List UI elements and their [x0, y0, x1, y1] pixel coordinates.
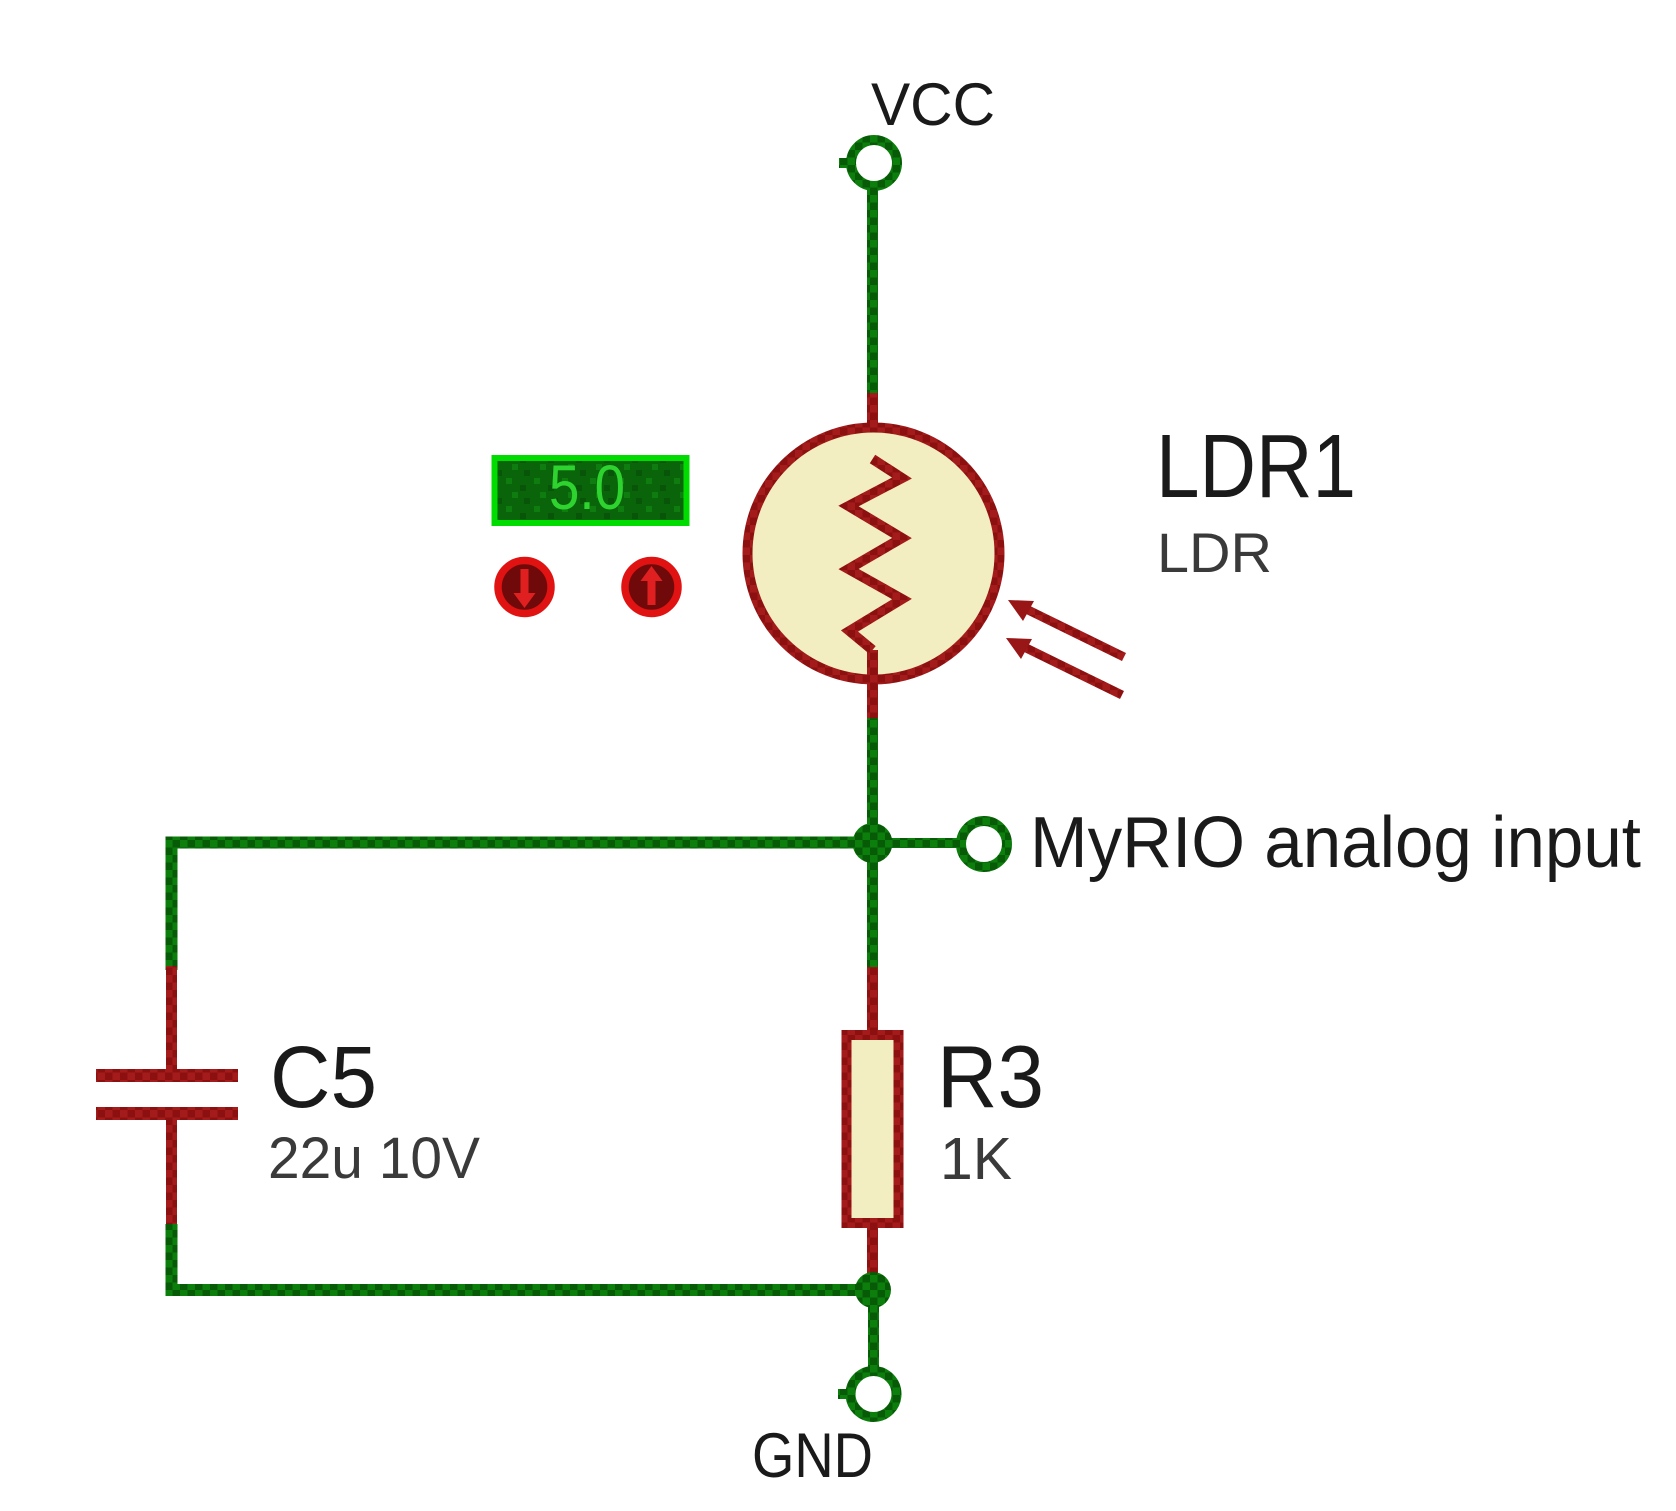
resistor R3	[847, 1035, 899, 1223]
R3 reference label	[937, 1027, 1044, 1126]
MyRIO analog input label	[1030, 803, 1641, 883]
C5 top pin	[166, 966, 177, 1070]
LDR value label	[1157, 521, 1272, 584]
torch brightness display 5.0	[495, 453, 687, 523]
C5 value label 22u 10V	[268, 1126, 480, 1191]
wire node to R3 top	[867, 843, 878, 970]
GND terminal	[838, 1371, 897, 1417]
svg-text:5.0: 5.0	[549, 453, 625, 523]
torch up button	[625, 561, 678, 614]
C5 reference label	[270, 1029, 377, 1126]
LDR1 top pin	[867, 393, 878, 460]
svg-text:C5: C5	[270, 1029, 377, 1126]
GND label	[752, 1421, 873, 1491]
VCC label	[871, 71, 995, 138]
LDR1 reference label	[1156, 417, 1356, 517]
svg-text:LDR: LDR	[1157, 521, 1272, 584]
wire node to GND terminal	[868, 1290, 879, 1372]
MyRIO analog input terminal	[961, 821, 1007, 867]
R3 bottom pin	[867, 1223, 878, 1278]
torch down button	[498, 561, 551, 614]
junction node ground	[855, 1272, 891, 1308]
wire analog node to C5 top	[172, 843, 873, 971]
svg-text:1K: 1K	[940, 1126, 1012, 1192]
R3 top pin	[867, 967, 878, 1035]
junction node analog input	[853, 823, 893, 863]
svg-text:GND: GND	[752, 1421, 873, 1491]
wire LDR to analog node	[867, 718, 878, 848]
photoresistor LDR1	[748, 428, 1000, 680]
R3 value label 1K	[940, 1126, 1012, 1192]
svg-text:R3: R3	[937, 1027, 1044, 1126]
VCC terminal	[839, 140, 897, 186]
svg-text:VCC: VCC	[871, 71, 995, 138]
wire VCC terminal to LDR top	[867, 185, 878, 396]
LDR light arrow 2	[1006, 638, 1122, 695]
svg-text:LDR1: LDR1	[1156, 417, 1356, 517]
svg-text:22u 10V: 22u 10V	[268, 1126, 480, 1191]
LDR light arrow 1	[1008, 600, 1124, 657]
wire C5 bottom to ground node	[172, 1224, 874, 1290]
wire node to MyRIO terminal	[890, 838, 958, 848]
svg-text:MyRIO analog input: MyRIO analog input	[1030, 803, 1641, 883]
C5 bottom pin	[166, 1119, 177, 1228]
LDR1 bottom pin	[867, 650, 878, 721]
capacitor C5	[96, 1069, 238, 1120]
